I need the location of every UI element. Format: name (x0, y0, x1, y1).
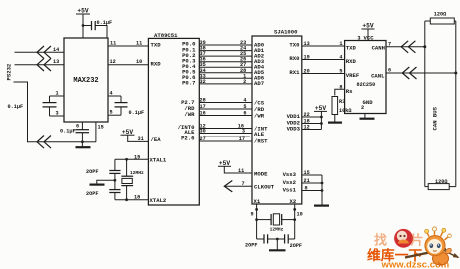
svg-text:TXD: TXD (346, 45, 357, 52)
svg-text:22: 22 (304, 112, 310, 118)
svg-text:4: 4 (243, 98, 246, 104)
svg-text:4: 4 (339, 55, 342, 61)
node junction (114, 179, 117, 182)
pin 15 stub (95, 122, 97, 142)
svg-text:3: 3 (56, 111, 59, 117)
svg-text:/RST: /RST (254, 138, 268, 145)
svg-text:6: 6 (243, 111, 246, 117)
wire /WR pin16 to /WR pin6 (199, 115, 252, 117)
svg-text:+5V: +5V (219, 160, 230, 167)
svg-text:CANL: CANL (371, 73, 385, 80)
svg-text:11: 11 (136, 41, 142, 47)
svg-text:31: 31 (138, 136, 144, 142)
wire /INT0 pin12 to /INT pin16 (199, 128, 252, 130)
capacitor C8 20PF (284, 234, 286, 243)
svg-text:21: 21 (304, 178, 310, 184)
svg-text:2: 2 (243, 79, 246, 85)
svg-text:30: 30 (200, 129, 206, 135)
wire VDD3 pin12 (302, 129, 322, 131)
svg-text:0.1μF: 0.1μF (129, 110, 145, 116)
node junction (125, 158, 128, 161)
wire Rs pin8 (335, 89, 345, 95)
bus wire P0.2 pin37 to AD2 pin25 (199, 55, 252, 57)
bus wire P0.3 pin36 to AD3 pin26 (199, 61, 252, 63)
svg-text:12: 12 (304, 125, 310, 131)
wire /RD pin17 to /RD pin5 (199, 108, 252, 110)
svg-text:5: 5 (243, 104, 246, 110)
wire CLKOUT pin7 (224, 185, 252, 187)
wire VDD2 pin18 (302, 123, 322, 125)
svg-text:CANH: CANH (372, 45, 385, 52)
svg-text:XTAL2: XTAL2 (150, 197, 167, 204)
svg-text:1: 1 (56, 91, 59, 97)
svg-text:RXD: RXD (346, 58, 357, 65)
capacitor C3 0.1uF pins 4-5 (108, 95, 121, 97)
svg-text:AD7: AD7 (254, 80, 264, 87)
svg-text:AT89C51: AT89C51 (154, 32, 178, 39)
svg-text:2: 2 (361, 105, 364, 111)
svg-text:TX0: TX0 (289, 42, 300, 49)
wire MAX232 pin11 to AT89C51 TXD (108, 45, 148, 47)
bus wire P0.7 pin32 to AD7 pin2 (199, 83, 252, 85)
svg-text:2OPF: 2OPF (290, 243, 302, 249)
svg-text:10: 10 (136, 59, 142, 65)
svg-text:CAN BUS: CAN BUS (432, 106, 439, 130)
svg-text:MAX232: MAX232 (73, 77, 98, 85)
left branch (256, 209, 258, 239)
wire P2.6 pin27 to /RST pin17 (199, 140, 252, 142)
X1 stub pin9 (256, 204, 258, 209)
svg-text:20: 20 (304, 69, 310, 75)
svg-text:6: 6 (76, 124, 79, 130)
svg-text:19: 19 (304, 55, 310, 61)
svg-text:SJA1000: SJA1000 (274, 29, 298, 36)
svg-text:12MHz: 12MHz (130, 170, 144, 176)
svg-text:/EA: /EA (151, 136, 162, 143)
svg-text:VREF: VREF (346, 72, 360, 79)
wire Vss1 pin8 (302, 190, 322, 192)
svg-text:11: 11 (110, 41, 116, 47)
svg-text:2OPF: 2OPF (86, 169, 98, 175)
svg-text:/WR: /WR (184, 111, 195, 118)
bus wire P0.0 pin39 to AD0 pin23 (199, 44, 252, 46)
wire VDD1 pin22 (302, 116, 322, 118)
svg-text:120Ω: 120Ω (435, 179, 447, 185)
IC U3 SJA1000 (252, 36, 302, 204)
svg-text:5: 5 (110, 110, 113, 116)
crystal Y2 (257, 219, 272, 221)
IC U4 82C250 (345, 41, 386, 114)
wire RS232 line to MAX232 pin 13 (15, 64, 65, 66)
IC U1 MAX232 (64, 38, 108, 122)
bus wire P0.4 pin35 to AD4 pin27 (199, 66, 252, 68)
node junction (276, 238, 279, 241)
ground (276, 239, 278, 250)
svg-text:13: 13 (53, 59, 59, 65)
ground (81, 142, 83, 147)
svg-text:120Ω: 120Ω (434, 12, 446, 18)
svg-text:P0.7: P0.7 (182, 80, 195, 87)
ground (97, 180, 115, 184)
svg-text:PS232: PS232 (6, 63, 13, 80)
IC U2 AT89C51 (148, 38, 199, 205)
X2 stub pin10 (294, 204, 296, 209)
svg-text:找: 找 (374, 233, 387, 248)
svg-text:+5V: +5V (362, 23, 373, 30)
capacitor C6 20PF (109, 189, 120, 191)
svg-text:7: 7 (242, 181, 245, 187)
wire CANL pin6 to bus (386, 72, 456, 74)
svg-text:10: 10 (297, 212, 303, 218)
svg-text:8: 8 (339, 84, 342, 90)
svg-text:13: 13 (304, 41, 310, 47)
svg-text:19: 19 (134, 154, 140, 160)
svg-text:0.1μF: 0.1μF (97, 20, 113, 26)
svg-text:XTAL1: XTAL1 (150, 157, 167, 164)
capacitor C1 0.1uF (83, 25, 92, 27)
resistor R3 10k (332, 97, 338, 115)
ground GND pin2 (364, 114, 366, 119)
svg-text:R3: R3 (339, 99, 345, 105)
svg-text:28: 28 (200, 98, 206, 104)
svg-text:32: 32 (200, 79, 206, 85)
svg-text:Rs: Rs (346, 88, 353, 95)
right branch (294, 209, 296, 239)
svg-text:P2.6: P2.6 (181, 134, 195, 141)
svg-text:Vss2: Vss2 (283, 179, 297, 186)
resistor R1 120ohm top (425, 20, 431, 22)
svg-text:3: 3 (242, 129, 245, 135)
svg-text:15: 15 (304, 170, 310, 176)
ghost scan line (204, 136, 250, 138)
svg-text:/WR: /WR (254, 113, 265, 120)
svg-text:CLKOUT: CLKOUT (254, 184, 275, 191)
bus wire P0.6 pin33 to AD6 pin1 (199, 77, 252, 79)
svg-text:17: 17 (200, 104, 206, 110)
capacitor C4 0.1uF pin 6 (81, 122, 83, 130)
svg-text:TXD: TXD (151, 42, 162, 49)
mascot (405, 227, 460, 265)
wire CANH pin7 to bus (386, 46, 425, 48)
svg-text:18: 18 (134, 194, 140, 200)
watermark logo (367, 227, 460, 269)
bus wire P0.5 pin34 to AD5 pin28 (199, 72, 252, 74)
svg-text:11: 11 (238, 168, 244, 174)
wire P2.7 pin28 to /CS pin4 (199, 102, 252, 104)
svg-text:Vss1: Vss1 (283, 187, 297, 194)
wire RS232 line to MAX232 pin 14 (15, 51, 65, 53)
svg-text:10kΩ: 10kΩ (339, 108, 351, 114)
svg-text:12MHz: 12MHz (270, 227, 284, 233)
svg-text:9: 9 (251, 212, 254, 218)
svg-text:0.1μF: 0.1μF (60, 128, 76, 134)
CAN bus line CANH (424, 21, 426, 187)
node junction (81, 140, 84, 143)
svg-text:VDD3: VDD3 (287, 126, 301, 133)
node junction (82, 24, 85, 27)
svg-text:8: 8 (305, 186, 308, 192)
capacitor C2 0.1uF pins 1-3 (50, 95, 65, 97)
svg-text:14: 14 (53, 47, 59, 53)
svg-text:RXD: RXD (151, 60, 162, 67)
svg-text:4: 4 (110, 91, 113, 97)
capacitor C7 20PF (257, 238, 264, 240)
wire MAX232 pin12 to AT89C51 RXD (108, 64, 148, 66)
wire Vss3 pin15 (302, 174, 322, 176)
svg-text:1: 1 (339, 41, 342, 47)
svg-text:2OPF: 2OPF (245, 243, 257, 249)
svg-text:17: 17 (239, 136, 245, 142)
arrow chevron ground (37, 136, 44, 149)
svg-text:2OPF: 2OPF (86, 191, 98, 197)
svg-text:6: 6 (388, 68, 391, 74)
wire XTAL2 pin18 (115, 199, 148, 201)
svg-text:82C250: 82C250 (357, 82, 376, 88)
svg-text:16: 16 (200, 111, 206, 117)
wire TX0 pin13 to 82C250 TXD pin1 (302, 45, 345, 47)
ground (314, 205, 329, 207)
svg-text:5: 5 (339, 69, 342, 75)
svg-text:X1: X1 (254, 198, 261, 205)
arrow chevron pin14 (37, 46, 44, 59)
CAN bus line CANL (455, 21, 457, 187)
svg-text:Vss3: Vss3 (283, 171, 297, 178)
ground (328, 121, 342, 123)
vertical join (321, 175, 323, 205)
svg-text:X2: X2 (290, 198, 297, 205)
svg-text:VCC: VCC (364, 35, 375, 42)
wire RX0 pin19 to 82C250 RXD pin4 (302, 59, 345, 61)
resistor R2 120ohm bottom (425, 186, 428, 188)
wire XTAL1 pin19 (115, 158, 148, 160)
wire RS232 ground line (14, 82, 83, 142)
bus wire P0.1 pin38 to AD1 pin24 (199, 50, 252, 52)
svg-text:RX0: RX0 (289, 55, 300, 62)
wire RX1 pin20 to 82C250 VREF pin5 (302, 73, 345, 75)
arrow chevron pin13 (37, 58, 44, 71)
crystal Y1 12MHz (126, 159, 128, 176)
wire Vss2 pin21 (302, 182, 322, 184)
capacitor C5 20PF (114, 159, 116, 170)
svg-text:27: 27 (200, 136, 206, 142)
svg-text:15: 15 (98, 124, 104, 130)
svg-text:0.1μF: 0.1μF (8, 104, 24, 110)
svg-text:+5V: +5V (77, 8, 88, 15)
wire ALE pin30 to ALE pin3 (199, 133, 252, 135)
svg-text:7: 7 (388, 41, 391, 47)
node junction (125, 198, 128, 201)
svg-text:12: 12 (110, 59, 116, 65)
svg-text:3: 3 (357, 35, 360, 41)
svg-text:RX1: RX1 (289, 69, 300, 76)
svg-text:MODE: MODE (254, 170, 268, 177)
